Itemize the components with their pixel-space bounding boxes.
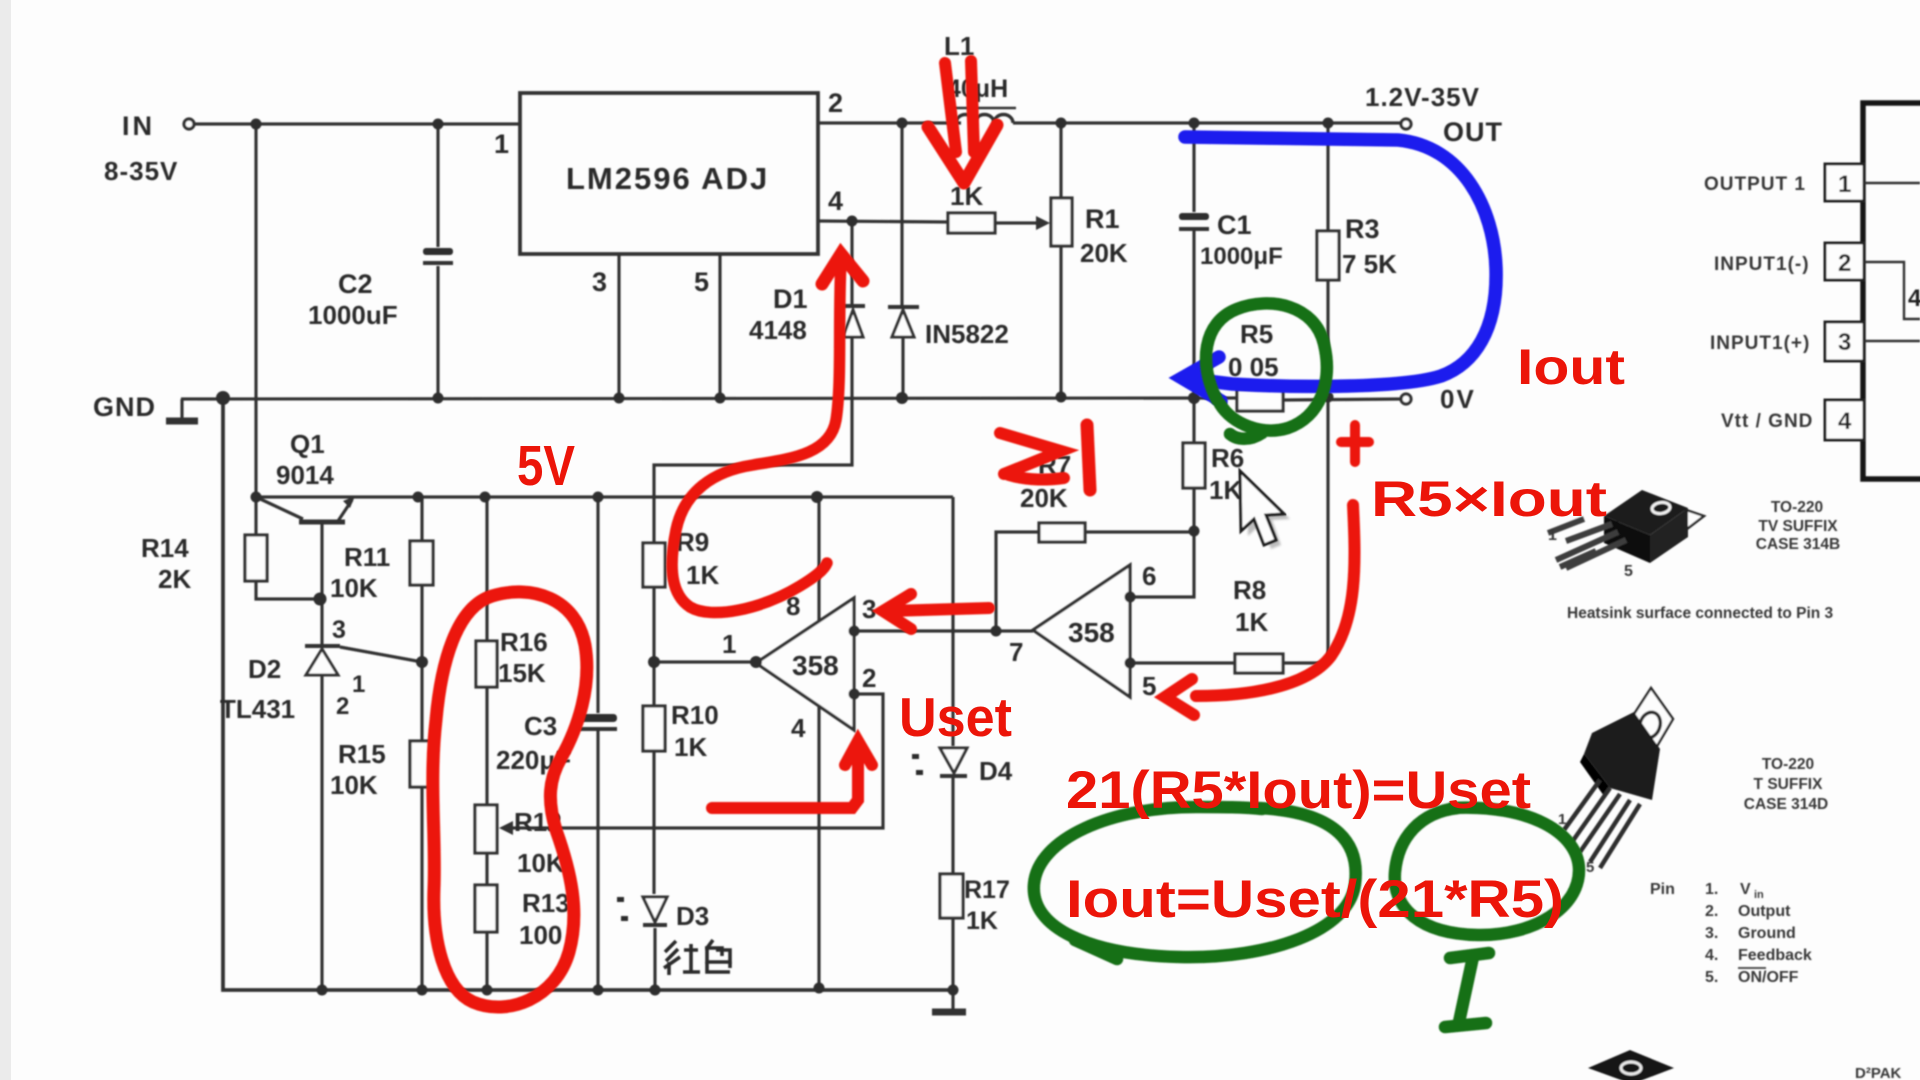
svg-text:5: 5 xyxy=(694,267,709,297)
svg-text:C3: C3 xyxy=(524,711,557,741)
svg-text:TO-220: TO-220 xyxy=(1762,756,1814,773)
svg-text:INPUT1(+): INPUT1(+) xyxy=(1710,333,1810,354)
svg-text:TO-220: TO-220 xyxy=(1771,499,1823,516)
svg-text:2: 2 xyxy=(828,88,843,118)
svg-text:C1: C1 xyxy=(1217,210,1252,240)
svg-text:T SUFFIX: T SUFFIX xyxy=(1754,776,1824,793)
svg-text:D²PAK: D²PAK xyxy=(1855,1065,1902,1080)
svg-text:Uset: Uset xyxy=(899,686,1012,748)
svg-text:3.: 3. xyxy=(1705,925,1718,942)
svg-text:5.: 5. xyxy=(1705,969,1718,986)
svg-text:IN5822: IN5822 xyxy=(925,319,1009,349)
svg-text:TL431: TL431 xyxy=(220,694,295,724)
svg-text:CASE 314B: CASE 314B xyxy=(1756,536,1840,553)
svg-text:358: 358 xyxy=(1068,617,1115,648)
svg-text:1K: 1K xyxy=(686,560,719,590)
svg-text:D4: D4 xyxy=(979,756,1013,786)
svg-text:10K: 10K xyxy=(330,770,378,800)
svg-text:15K: 15K xyxy=(498,658,546,688)
svg-text:Q1: Q1 xyxy=(290,429,325,459)
svg-text:20K: 20K xyxy=(1020,483,1068,513)
svg-text:1K: 1K xyxy=(674,732,707,762)
svg-text:1.: 1. xyxy=(1705,881,1718,898)
svg-text:2: 2 xyxy=(336,693,349,720)
svg-text:2.: 2. xyxy=(1705,903,1718,920)
svg-text:R15: R15 xyxy=(338,739,386,769)
svg-text:1: 1 xyxy=(722,629,736,659)
svg-text:5: 5 xyxy=(1586,859,1594,876)
svg-text:1: 1 xyxy=(1838,171,1851,198)
svg-text:4: 4 xyxy=(1838,408,1852,435)
svg-text:2K: 2K xyxy=(158,564,191,594)
svg-text:Iout: Iout xyxy=(1517,339,1625,395)
svg-text:CASE 314D: CASE 314D xyxy=(1744,796,1828,813)
svg-text:7: 7 xyxy=(1009,637,1023,667)
svg-text:4: 4 xyxy=(1908,285,1920,312)
svg-text:2: 2 xyxy=(1838,250,1851,277)
svg-text:R10: R10 xyxy=(671,700,719,730)
svg-text:4: 4 xyxy=(828,186,843,216)
svg-text:4.: 4. xyxy=(1705,947,1718,964)
svg-text:R16: R16 xyxy=(500,627,548,657)
svg-text:Iout=Uset/(21*R5): Iout=Uset/(21*R5) xyxy=(1066,870,1564,929)
svg-text:5: 5 xyxy=(1624,563,1633,580)
svg-text:5: 5 xyxy=(1142,671,1156,701)
svg-text:20K: 20K xyxy=(1080,238,1128,268)
svg-text:0V: 0V xyxy=(1440,384,1476,414)
svg-text:4148: 4148 xyxy=(749,315,807,345)
svg-text:Feedback: Feedback xyxy=(1738,947,1812,964)
svg-text:1: 1 xyxy=(1548,527,1557,544)
svg-text:3: 3 xyxy=(592,267,607,297)
svg-text:Vtt / GND: Vtt / GND xyxy=(1721,411,1813,432)
svg-text:6: 6 xyxy=(1142,561,1156,591)
svg-text:5V: 5V xyxy=(517,434,575,498)
svg-text:V: V xyxy=(1740,881,1751,898)
svg-text:1000μF: 1000μF xyxy=(1200,243,1283,270)
svg-text:D2: D2 xyxy=(248,654,281,684)
svg-text:R14: R14 xyxy=(141,533,189,563)
svg-text:21(R5*Iout)=Uset: 21(R5*Iout)=Uset xyxy=(1066,761,1531,820)
svg-text:in: in xyxy=(1754,889,1764,901)
svg-text:1000uF: 1000uF xyxy=(308,300,398,330)
svg-text:1K: 1K xyxy=(966,907,998,935)
svg-text:ON/OFF: ON/OFF xyxy=(1738,969,1799,986)
svg-text:358: 358 xyxy=(792,650,839,681)
svg-text:R5×Iout: R5×Iout xyxy=(1371,471,1607,527)
svg-text:Pin: Pin xyxy=(1650,881,1675,898)
svg-text:C2: C2 xyxy=(338,269,373,299)
svg-text:3: 3 xyxy=(1838,329,1851,356)
svg-text:1K: 1K xyxy=(1235,607,1268,637)
svg-text:R13: R13 xyxy=(522,888,570,918)
svg-text:1K: 1K xyxy=(1209,475,1242,505)
svg-text:TV SUFFIX: TV SUFFIX xyxy=(1758,518,1838,535)
svg-text:OUT: OUT xyxy=(1443,117,1503,147)
svg-text:R8: R8 xyxy=(1233,575,1266,605)
svg-text:OUTPUT 1: OUTPUT 1 xyxy=(1704,174,1806,195)
svg-text:7 5K: 7 5K xyxy=(1342,249,1397,279)
svg-text:3: 3 xyxy=(862,594,876,624)
svg-text:R11: R11 xyxy=(344,542,390,572)
svg-text:2: 2 xyxy=(862,663,876,693)
svg-text:IN: IN xyxy=(122,111,155,141)
svg-text:D1: D1 xyxy=(773,284,808,314)
svg-text:Heatsink surface connected to: Heatsink surface connected to Pin 3 xyxy=(1567,605,1834,622)
svg-text:1: 1 xyxy=(352,671,365,698)
svg-text:10K: 10K xyxy=(330,573,378,603)
svg-text:R5: R5 xyxy=(1240,319,1273,349)
svg-text:9014: 9014 xyxy=(276,460,334,490)
svg-text:R17: R17 xyxy=(964,876,1010,904)
svg-text:1.2V-35V: 1.2V-35V xyxy=(1365,82,1480,112)
svg-text:Output: Output xyxy=(1738,903,1791,920)
svg-text:GND: GND xyxy=(93,392,156,422)
svg-text:R1: R1 xyxy=(1085,204,1120,234)
svg-text:R3: R3 xyxy=(1345,214,1380,244)
svg-text:4: 4 xyxy=(791,713,806,743)
svg-text:D3: D3 xyxy=(676,901,709,931)
svg-text:8-35V: 8-35V xyxy=(104,156,178,186)
svg-text:INPUT1(-): INPUT1(-) xyxy=(1714,254,1810,275)
svg-text:Ground: Ground xyxy=(1738,925,1796,942)
svg-text:LM2596 ADJ: LM2596 ADJ xyxy=(566,161,769,196)
svg-text:100: 100 xyxy=(519,920,562,950)
svg-text:3: 3 xyxy=(332,616,346,644)
svg-text:1: 1 xyxy=(494,129,509,159)
